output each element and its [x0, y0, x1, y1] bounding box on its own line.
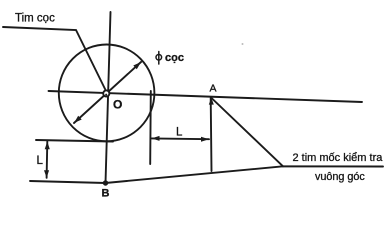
- left horizontal reference line: [36, 140, 113, 142]
- vertical axis wire: [106, 12, 111, 183]
- label vuong goc: [315, 171, 365, 183]
- svg-text:A: A: [210, 83, 217, 95]
- svg-text:L: L: [176, 126, 183, 138]
- horizontal axis wire: [49, 91, 363, 102]
- svg-text:vuông góc: vuông góc: [315, 171, 365, 183]
- center mark O: [103, 90, 109, 96]
- leader wire to pile center: [3, 27, 107, 93]
- ground line: [30, 166, 383, 183]
- label L left: [37, 155, 44, 167]
- dimension line L right: [152, 137, 210, 140]
- speck: [242, 43, 244, 45]
- svg-text:B: B: [102, 188, 110, 200]
- diameter arrowhead upper-right: [133, 62, 141, 69]
- svg-text:Tim cọc: Tim cọc: [15, 13, 55, 25]
- label 2 tim moc kiem tra: [293, 152, 384, 164]
- arrowhead at A: [209, 98, 214, 105]
- label O: [113, 98, 122, 112]
- diagonal wire from A to ground: [212, 98, 284, 166]
- svg-text:cọc: cọc: [165, 52, 184, 64]
- left dimension line L: [46, 142, 49, 178]
- svg-text:2 tim mốc kiểm tra: 2 tim mốc kiểm tra: [293, 152, 384, 164]
- diameter line: [74, 62, 141, 123]
- label phi coc: [156, 55, 162, 61]
- svg-text:O: O: [113, 98, 122, 112]
- diameter arrowhead lower-left: [74, 116, 82, 123]
- svg-text:L: L: [37, 155, 44, 167]
- label Tim cọc: [15, 13, 55, 25]
- extension wire at pile edge: [149, 91, 152, 164]
- node B: [103, 180, 108, 185]
- label L right: [176, 126, 183, 138]
- pile circle: [59, 45, 155, 142]
- node A: [210, 83, 217, 95]
- extension wire below A: [210, 98, 213, 171]
